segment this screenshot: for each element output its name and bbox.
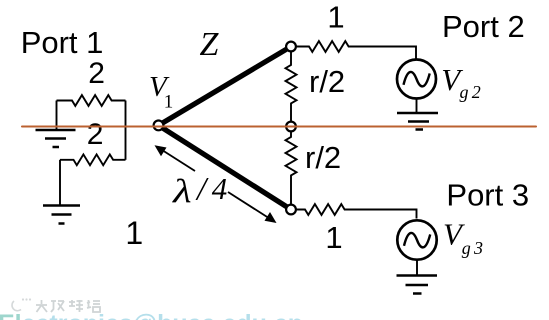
svg-text:Port 3: Port 3 [446,177,529,212]
resistor r/2 top (vertical) [286,52,297,122]
wire joining resistors right ends [125,101,127,160]
svg-text:4: 4 [212,171,228,206]
wire to node V1 [126,126,155,128]
ground G1 [36,130,76,147]
svg-text:g2: g2 [460,82,481,102]
resistor r/2 bottom (vertical) [286,132,297,205]
node top (junction) [286,42,296,52]
wire source Vg2 to ground [416,99,418,113]
svg-text:g3: g3 [462,238,483,258]
resistor 1 (port 2, horizontal) [296,41,416,59]
wire source Vg3 to ground [416,260,418,275]
svg-text:λ: λ [172,174,192,211]
annotation line (orange) [22,125,536,127]
svg-text:1: 1 [164,91,174,112]
resistor R2a (top-left horizontal) [57,95,126,106]
resistor 1 (port 3, horizontal) [296,204,417,218]
watermark text 大数跨境 (approximated strokes) [36,300,100,312]
dimension arrow lambda/4 (upper half) [160,148,196,171]
svg-text:Port 2: Port 2 [442,9,525,44]
svg-text:r/2: r/2 [305,140,341,175]
sine wave Vg3 [404,233,430,247]
svg-text:1: 1 [325,220,342,255]
svg-text:Port 1: Port 1 [21,25,104,60]
wire left drop to ground (R2a) [56,101,58,130]
svg-text:1: 1 [125,215,143,251]
ground G4 [397,276,438,294]
node middle (junction) [286,122,296,132]
node bottom (junction) [286,205,296,215]
svg-text:1: 1 [327,0,344,34]
svg-text:Z: Z [200,26,220,63]
svg-text:r/2: r/2 [309,64,345,99]
AC source Vg2 circle [397,60,436,99]
wire left drop to ground (R2b) [59,160,61,205]
watermark logo mark [12,298,31,310]
svg-text:2: 2 [88,57,105,90]
ground G3 [397,113,438,130]
svg-text:/: / [195,172,209,208]
svg-text:2: 2 [87,118,104,151]
resistor R2b (bottom-left horizontal) [60,154,126,165]
AC source Vg3 circle [397,220,436,259]
svg-text:Electronics@buaa.edu.cn: Electronics@buaa.edu.cn [0,310,303,320]
transmission line lambda/4 (thick, V1 to bottom node) [159,125,292,209]
dimension arrow lambda/4 (lower half) [228,192,272,220]
transmission line Z (thick, V1 to top node) [159,47,292,126]
ground G2 [43,206,80,224]
sine wave Vg2 [404,72,430,86]
node V1 [154,121,164,131]
